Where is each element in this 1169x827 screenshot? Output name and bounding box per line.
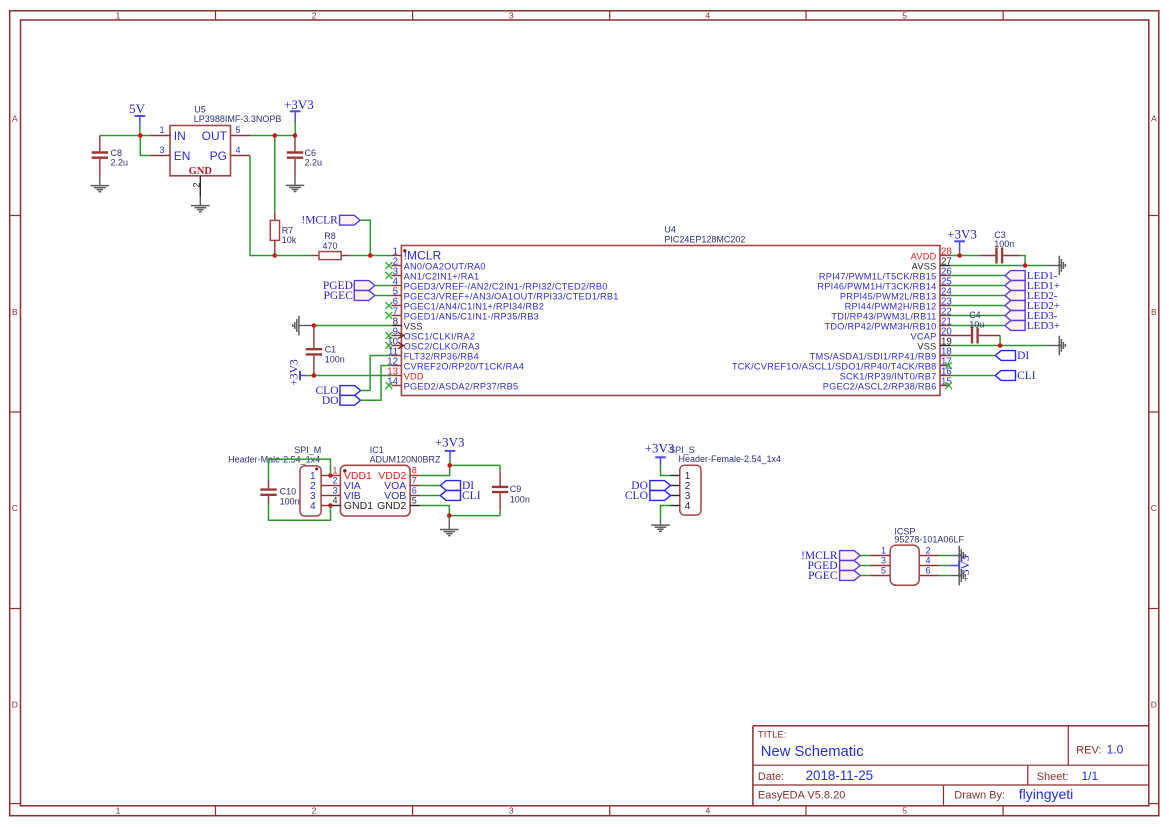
svg-text:4: 4 xyxy=(706,806,711,816)
svg-text:C10: C10 xyxy=(280,487,297,497)
power flag +3V3 (U4 VDD) xyxy=(288,359,314,386)
svg-text:LED3+: LED3+ xyxy=(1027,320,1060,332)
svg-text:VCAP: VCAP xyxy=(910,331,936,341)
svg-text:2: 2 xyxy=(191,182,201,187)
capacitor C1 100n xyxy=(306,326,345,376)
wire U4 to LED2+ xyxy=(950,305,1005,307)
ground at ICSP pin 6 xyxy=(950,566,966,586)
svg-text:3: 3 xyxy=(159,145,164,155)
svg-text:100n: 100n xyxy=(280,496,300,506)
U4 pin 21 TDO/RP42/PWM3H/RB10 xyxy=(825,317,952,332)
net flag DI (IC1) xyxy=(420,480,474,492)
wire IC1.VDD2 to +3V3/C9 xyxy=(420,465,500,475)
svg-text:100n: 100n xyxy=(994,239,1014,249)
svg-text:PGEC3/VREF+/AN3/OA1OUT/RPI33/C: PGEC3/VREF+/AN3/OA1OUT/RPI33/CTED1/RB1 xyxy=(404,291,619,301)
net flag PGEC xyxy=(323,290,391,302)
U4 pin 11 FLT32/RP36/RB4 xyxy=(388,347,479,362)
svg-text:5: 5 xyxy=(412,495,417,505)
power flag +3V3 (IC1) xyxy=(435,435,465,466)
capacitor C9 100n xyxy=(492,471,530,510)
capacitor C6 2.2u xyxy=(287,136,322,176)
U4 pin 10 OSC2/CLKO/RA3 xyxy=(386,337,480,352)
svg-text:6: 6 xyxy=(926,565,931,575)
IC1 pin 6 VOB xyxy=(384,485,420,502)
svg-text:D: D xyxy=(12,700,18,710)
connector SPI_S Header-Female-2.54_1x4 xyxy=(669,445,781,515)
IC IC1 ADUM120N0BRZ xyxy=(340,445,441,516)
svg-text:2.2u: 2.2u xyxy=(111,158,129,168)
svg-text:2.2u: 2.2u xyxy=(305,158,323,168)
svg-text:C8: C8 xyxy=(111,148,123,158)
ground at U4 AVSS pin 27 xyxy=(1046,256,1065,276)
net flag PGED xyxy=(323,280,392,292)
net flag LED1- xyxy=(1005,270,1058,282)
svg-text:+3V3: +3V3 xyxy=(288,359,300,386)
svg-text:1: 1 xyxy=(116,806,121,816)
svg-text:1: 1 xyxy=(332,465,337,475)
net flag DO (SPI_S) xyxy=(631,480,670,492)
connector SPI_M Header-Male-2.54_1x4 xyxy=(228,445,330,516)
IC1 pin 8 VDD2 xyxy=(378,465,420,482)
wire U4.16 to CLI xyxy=(950,375,995,377)
svg-text:7: 7 xyxy=(412,475,417,485)
wire U5.PG to R8 net xyxy=(250,156,275,256)
net flag PGED (ICSP) xyxy=(807,560,869,572)
wire AVDD to C3 xyxy=(950,255,980,257)
svg-text:1.0: 1.0 xyxy=(1107,743,1124,757)
svg-text:C9: C9 xyxy=(510,484,522,494)
svg-text:ADUM120N0BRZ: ADUM120N0BRZ xyxy=(370,454,442,464)
svg-text:95278-101A06LF: 95278-101A06LF xyxy=(894,535,964,545)
net flag LED2- xyxy=(1005,290,1058,302)
net flag LED2+ xyxy=(1005,300,1060,312)
IC1 pin 5 GND2 xyxy=(377,495,420,512)
svg-text:2018-11-25: 2018-11-25 xyxy=(806,768,874,783)
junction IC1 ground node xyxy=(447,513,452,518)
capacitor C8 2.2u xyxy=(92,136,128,177)
svg-text:REV:: REV: xyxy=(1076,744,1101,756)
svg-text:PIC24EP128MC202: PIC24EP128MC202 xyxy=(664,234,745,244)
svg-text:PGEC: PGEC xyxy=(808,570,838,582)
svg-text:15: 15 xyxy=(941,377,952,388)
svg-text:B: B xyxy=(12,307,18,317)
svg-text:CLI: CLI xyxy=(462,490,481,502)
U4 pin 22 TDI/RP43/PWM3L/RB11 xyxy=(831,307,951,322)
svg-text:Sheet:: Sheet: xyxy=(1037,771,1069,783)
junction R7/!MCLR net xyxy=(273,253,278,258)
svg-text:!MCLR: !MCLR xyxy=(301,215,338,227)
svg-text:4: 4 xyxy=(236,145,241,155)
U4 pin 7 PGED1/AN5/C1IN1-/RP35/RB3 xyxy=(386,307,540,322)
svg-text:4: 4 xyxy=(926,555,931,565)
junction R8/!MCLR xyxy=(368,253,373,258)
svg-text:flyingyeti: flyingyeti xyxy=(1019,786,1073,802)
ground at U5 pin 2 xyxy=(191,196,210,212)
net flag DO (U4) xyxy=(322,395,361,407)
junction IC1 +3V3 node xyxy=(447,463,452,468)
svg-text:5: 5 xyxy=(902,806,907,816)
U4 pin 5 PGEC3/VREF+/AN3/OA1OUT/RPI33/CTED1/RB1 xyxy=(391,287,618,302)
U4 pin 27 AVSS xyxy=(912,257,952,272)
svg-text:+3V3: +3V3 xyxy=(435,435,465,450)
ground at IC1/C9 xyxy=(440,516,459,536)
U4 pin 28 AVDD xyxy=(911,247,952,262)
ground at SPI_S pin 4 xyxy=(651,518,670,531)
svg-text:OUT: OUT xyxy=(202,129,228,143)
U4 pin 13 VDD xyxy=(387,367,424,382)
svg-text:VSS: VSS xyxy=(404,321,423,331)
wire U5.OUT to +3V3 / C6 / R7 xyxy=(250,136,295,212)
wire C4 to VSS net xyxy=(950,336,1046,346)
IC1 pin 4 GND1 xyxy=(331,495,374,512)
svg-text:PGEC2/ASCL2/RP38/RB6: PGEC2/ASCL2/RP38/RB6 xyxy=(823,381,937,391)
svg-text:CLO: CLO xyxy=(625,490,648,502)
wire +3V3 to U4.13 xyxy=(314,375,392,377)
svg-text:EN: EN xyxy=(174,149,191,163)
junction C3/AVSS xyxy=(1023,263,1028,268)
svg-text:1: 1 xyxy=(159,125,164,135)
wire R7 to R8 xyxy=(275,255,311,257)
capacitor C10 100n xyxy=(260,481,299,506)
svg-text:4: 4 xyxy=(310,501,316,512)
junction +3V3/C1 xyxy=(312,373,317,378)
U4 pin 25 RPI46/PWM1H/T3CK/RB14 xyxy=(817,277,951,292)
svg-text:LP3988IMF-3.3NOPB: LP3988IMF-3.3NOPB xyxy=(194,114,282,124)
net flag !MCLR (ICSP) xyxy=(801,550,870,562)
U4 pin 1 !MCLR xyxy=(391,247,441,263)
U4 pin 19 VSS xyxy=(917,337,951,352)
U4 pin 17 TCK/CVREF1O/ASCL1/SDO1/RP40/T4CK/RB8 xyxy=(732,357,952,372)
wire DO to U4.12 xyxy=(361,366,392,401)
wire CLO to U4.11 xyxy=(361,356,392,391)
ICSP pin 4 xyxy=(919,555,939,565)
wire C3 to AVSS net xyxy=(950,256,1046,266)
svg-text:OSC1/CLKI/RA2: OSC1/CLKI/RA2 xyxy=(404,331,476,341)
resistor R7 10k xyxy=(270,211,296,256)
IC1 pin 7 VOA xyxy=(384,475,420,492)
svg-text:3: 3 xyxy=(509,10,514,20)
svg-text:OSC2/CLKO/RA3: OSC2/CLKO/RA3 xyxy=(404,341,480,351)
svg-text:PGED1/AN5/C1IN1-/RP35/RB3: PGED1/AN5/C1IN1-/RP35/RB3 xyxy=(404,311,539,321)
junction AVDD/+3V3 xyxy=(957,253,962,258)
power flag 5V xyxy=(129,101,146,136)
svg-text:10k: 10k xyxy=(282,235,297,245)
regulator U5 LP3988IMF-3.3NOPB xyxy=(150,104,281,196)
svg-text:TDI/RP43/PWM3L/RB11: TDI/RP43/PWM3L/RB11 xyxy=(831,311,936,321)
svg-text:VDD: VDD xyxy=(404,371,424,381)
U4 pin 14 PGED2/ASDA2/RP37/RB5 xyxy=(386,377,519,392)
svg-text:SPI_M: SPI_M xyxy=(294,445,321,455)
wire U4 to LED1- xyxy=(950,275,1005,277)
svg-text:U4: U4 xyxy=(664,225,676,235)
svg-text:Header-Female-2.54_1x4: Header-Female-2.54_1x4 xyxy=(679,454,782,464)
U4 pin 26 RPI47/PWM1L/T5CK/RB15 xyxy=(819,267,952,282)
svg-text:470: 470 xyxy=(322,241,337,251)
svg-text:IC1: IC1 xyxy=(370,445,384,455)
net flag DI (U4) xyxy=(995,350,1029,362)
net flag CLI (IC1) xyxy=(420,490,481,502)
svg-text:PG: PG xyxy=(210,149,227,163)
svg-text:+3V3: +3V3 xyxy=(947,226,977,241)
wire 5V rail: C8 / U5.IN / U5.EN xyxy=(100,136,150,156)
svg-text:2: 2 xyxy=(312,806,317,816)
ICSP pin 6 xyxy=(919,565,939,575)
svg-text:B: B xyxy=(1151,307,1157,317)
ICSP pin 2 xyxy=(919,545,939,555)
wire U4 to LED1+ xyxy=(950,285,1005,287)
svg-text:TDO/RP42/PWM3H/RB10: TDO/RP42/PWM3H/RB10 xyxy=(825,321,937,331)
svg-text:DI: DI xyxy=(1017,350,1029,362)
ground at U4 VSS pin 19 xyxy=(1046,336,1065,356)
junction VSS/C1 xyxy=(312,323,317,328)
U4 pin 12 CVREF2O/RP20/T1CK/RA4 xyxy=(387,357,524,372)
svg-text:AN0/OA2OUT/RA0: AN0/OA2OUT/RA0 xyxy=(404,261,486,271)
svg-text:3: 3 xyxy=(509,806,514,816)
wire !MCLR flag to R8/U4.1 xyxy=(350,220,392,255)
U4 pin 4 PGED3/VREF-/AN2/C2IN1-/RPI32/CTED2/RB0 xyxy=(391,277,607,292)
IC1 pin 1 VDD1 xyxy=(331,465,373,482)
svg-text:PGEC: PGEC xyxy=(323,290,353,302)
junction OUT/R7 xyxy=(273,133,278,138)
IC1 pin 3 VIB xyxy=(331,485,361,502)
svg-text:1: 1 xyxy=(881,545,886,555)
svg-text:GND2: GND2 xyxy=(377,500,406,512)
svg-text:2: 2 xyxy=(312,10,317,20)
power flag +3V3 (U4 AVDD) xyxy=(947,226,977,255)
svg-text:New Schematic: New Schematic xyxy=(761,744,864,760)
svg-text:IN: IN xyxy=(174,129,186,143)
wire C10 top loop xyxy=(269,459,331,481)
svg-text:CVREF2O/RP20/T1CK/RA4: CVREF2O/RP20/T1CK/RA4 xyxy=(404,361,525,371)
wire ICSP.6 to ground xyxy=(939,575,949,577)
wire ICSP.2 to ground xyxy=(939,555,949,557)
wire C10 bottom loop xyxy=(269,504,331,520)
resistor R8 470 xyxy=(311,231,350,259)
svg-text:5V: 5V xyxy=(129,101,146,116)
svg-text:R8: R8 xyxy=(324,231,336,241)
IC U4 PIC24EP128MC202 xyxy=(401,225,940,396)
net flag PGEC (ICSP) xyxy=(808,570,870,582)
wire U4.18 to DI xyxy=(950,355,995,357)
svg-text:PGED3/VREF-/AN2/C2IN1-/RPI32/C: PGED3/VREF-/AN2/C2IN1-/RPI32/CTED2/RB0 xyxy=(404,281,608,291)
wire IC1.GND2 / C9 to ground xyxy=(420,506,500,516)
U4 pin 20 VCAP xyxy=(910,327,952,342)
svg-text:AN1/C2IN1+/RA1: AN1/C2IN1+/RA1 xyxy=(404,271,480,281)
svg-text:TMS/ASDA1/SDI1/RP41/RB9: TMS/ASDA1/SDI1/RP41/RB9 xyxy=(810,351,937,361)
connector ICSP 95278-101A06LF xyxy=(890,527,964,586)
net flag LED3- xyxy=(1005,310,1058,322)
svg-text:U5: U5 xyxy=(194,104,206,114)
svg-text:R7: R7 xyxy=(282,226,294,236)
U4 pin 16 SCK1/RP39/INT0/RB7 xyxy=(840,367,952,382)
svg-text:GND: GND xyxy=(189,166,213,177)
svg-text:C: C xyxy=(1151,503,1157,513)
svg-text:RPI44/PWM2H/RB12: RPI44/PWM2H/RB12 xyxy=(845,301,937,311)
svg-text:DO: DO xyxy=(322,395,339,407)
ground at C6 xyxy=(286,176,305,192)
svg-text:1/1: 1/1 xyxy=(1082,769,1099,783)
net flag CLI (U4) xyxy=(995,370,1035,382)
title block xyxy=(753,726,1149,806)
ground at U4 VSS pin 8 xyxy=(293,316,314,336)
svg-text:C1: C1 xyxy=(325,345,337,355)
power flag +3V3 (regulator output) xyxy=(284,97,314,136)
U4 pin 2 AN0/OA2OUT/RA0 xyxy=(386,257,486,272)
svg-text:SCK1/RP39/INT0/RB7: SCK1/RP39/INT0/RB7 xyxy=(840,371,937,381)
svg-text:TCK/CVREF1O/ASCL1/SDO1/RP40/T4: TCK/CVREF1O/ASCL1/SDO1/RP40/T4CK/RB8 xyxy=(732,361,937,371)
svg-text:8: 8 xyxy=(412,465,417,475)
U4 pin 23 RPI44/PWM2H/RB12 xyxy=(845,297,952,312)
net flag CLO (U4) xyxy=(316,385,361,397)
capacitor C4 10u xyxy=(940,310,1000,344)
svg-text:5: 5 xyxy=(881,565,886,575)
svg-text:D: D xyxy=(1151,700,1157,710)
svg-text:AVDD: AVDD xyxy=(911,251,937,261)
ICSP pin 1 xyxy=(870,545,890,555)
svg-text:2: 2 xyxy=(926,545,931,555)
wire ICSP.4 to +3V3 xyxy=(939,565,949,567)
svg-text:1: 1 xyxy=(116,10,121,20)
svg-text:GND1: GND1 xyxy=(344,500,373,512)
net flag LED3+ xyxy=(1005,320,1060,332)
svg-text:EasyEDA V5.8.20: EasyEDA V5.8.20 xyxy=(758,790,845,802)
net flag CLO (SPI_S) xyxy=(625,490,671,502)
wire SPI_S.4 to ground xyxy=(661,506,671,519)
junction OUT/C6 xyxy=(293,133,298,138)
wire U4 to LED3+ xyxy=(950,325,1005,327)
net flag !MCLR xyxy=(301,215,360,227)
svg-text:+3V3: +3V3 xyxy=(284,97,314,112)
svg-text:FLT32/RP36/RB4: FLT32/RP36/RB4 xyxy=(404,351,479,361)
svg-text:4: 4 xyxy=(706,10,711,20)
U4 pin 8 VSS xyxy=(391,317,422,332)
svg-text:!MCLR: !MCLR xyxy=(404,248,442,262)
junction SPI_M.4/IC1.GND1/C10 xyxy=(328,503,333,508)
U4 pin 24 PRPI45/PWM2L/RB13 xyxy=(840,287,953,302)
svg-text:10u: 10u xyxy=(969,319,984,329)
svg-text:100n: 100n xyxy=(510,494,530,504)
svg-text:RPI46/PWM1H/T3CK/RB14: RPI46/PWM1H/T3CK/RB14 xyxy=(817,281,936,291)
ICSP pin 3 xyxy=(870,555,890,565)
svg-text:VSS: VSS xyxy=(917,341,936,351)
junction SPI_M.1/IC1.VDD1/C10 xyxy=(328,473,333,478)
svg-text:PRPI45/PWM2L/RB13: PRPI45/PWM2L/RB13 xyxy=(840,291,937,301)
svg-text:6: 6 xyxy=(412,485,417,495)
svg-text:2: 2 xyxy=(332,475,337,485)
svg-text:4: 4 xyxy=(332,495,337,505)
svg-text:Drawn By:: Drawn By: xyxy=(954,790,1005,802)
IC1 pin 2 VIA xyxy=(331,475,361,492)
svg-text:4: 4 xyxy=(685,501,691,512)
U4 pin 6 PGEC1/AN4/C1IN1+/RPI34/RB2 xyxy=(386,297,545,312)
svg-text:Date:: Date: xyxy=(758,771,784,783)
svg-text:CLI: CLI xyxy=(1017,370,1036,382)
svg-text:PGEC1/AN4/C1IN1+/RPI34/RB2: PGEC1/AN4/C1IN1+/RPI34/RB2 xyxy=(404,301,545,311)
svg-text:3: 3 xyxy=(881,555,886,565)
svg-text:5: 5 xyxy=(902,10,907,20)
svg-text:TITLE:: TITLE: xyxy=(758,730,787,741)
U4 pin 18 TMS/ASDA1/SDI1/RP41/RB9 xyxy=(810,347,952,362)
power flag +3V3 (ICSP) xyxy=(950,555,973,582)
svg-text:A: A xyxy=(12,114,18,124)
net flag LED1+ xyxy=(1005,280,1060,292)
ground at ICSP pin 2 xyxy=(950,546,966,566)
ground at C8 xyxy=(91,176,110,192)
wire VSS/C1 xyxy=(314,325,392,327)
svg-text:5: 5 xyxy=(236,125,241,135)
U4 pin 15 PGEC2/ASCL2/RP38/RB6 xyxy=(823,377,952,392)
svg-text:C: C xyxy=(12,503,18,513)
wire U4 to LED3- xyxy=(950,315,1005,317)
ICSP pin 5 xyxy=(870,565,890,575)
svg-text:C6: C6 xyxy=(305,148,317,158)
svg-text:100n: 100n xyxy=(325,354,345,364)
wire U4 to LED2- xyxy=(950,295,1005,297)
junction 5V node xyxy=(138,133,143,138)
junction C4/VSS xyxy=(998,343,1003,348)
U4 pin 9 OSC1/CLKI/RA2 xyxy=(386,327,476,342)
U4 pin 3 AN1/C2IN1+/RA1 xyxy=(386,267,480,282)
svg-text:AVSS: AVSS xyxy=(912,261,937,271)
svg-text:RPI47/PWM1L/T5CK/RB15: RPI47/PWM1L/T5CK/RB15 xyxy=(819,271,937,281)
power flag +3V3 (SPI_S) xyxy=(645,441,675,476)
capacitor C3 100n xyxy=(980,230,1020,264)
svg-text:PGED2/ASDA2/RP37/RB5: PGED2/ASDA2/RP37/RB5 xyxy=(404,381,519,391)
svg-text:3: 3 xyxy=(332,485,337,495)
svg-text:A: A xyxy=(1151,114,1157,124)
